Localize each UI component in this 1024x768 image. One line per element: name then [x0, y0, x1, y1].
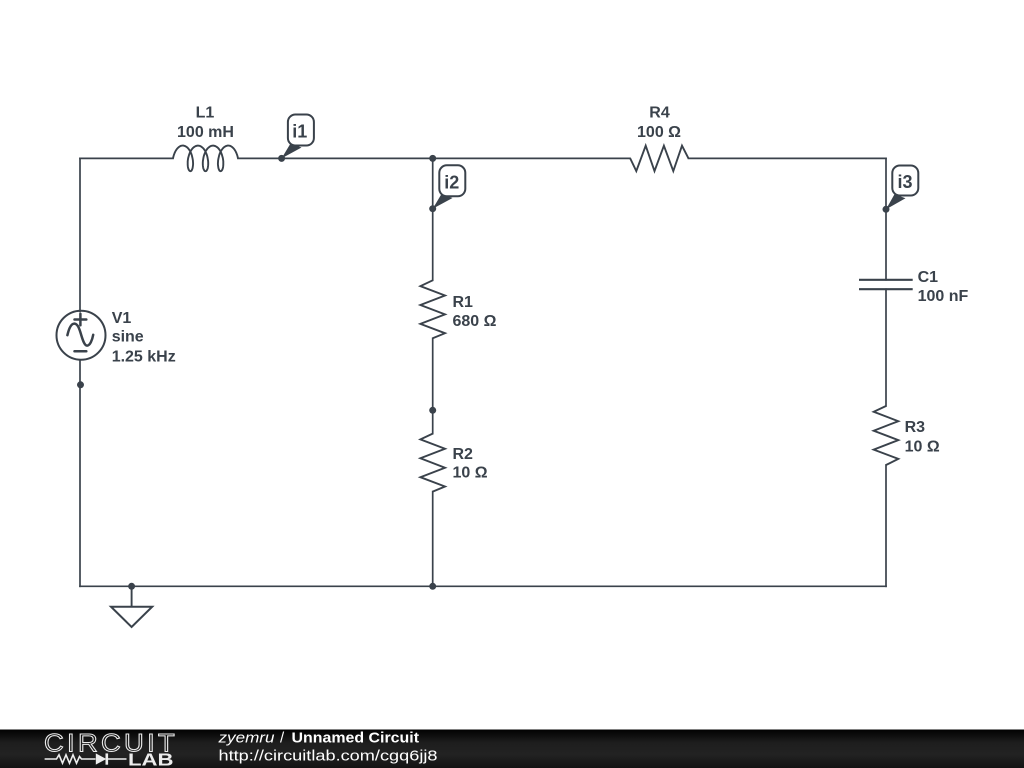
bottom bar — [0, 730, 1024, 768]
svg-text:C1: C1 — [918, 269, 939, 286]
junction dot i1 node — [278, 155, 285, 162]
node i1 flag — [282, 115, 314, 159]
resistor R1 — [420, 280, 445, 338]
svg-text:V1: V1 — [112, 310, 132, 327]
svg-text:R3: R3 — [905, 419, 926, 436]
voltage source V1 — [57, 311, 106, 360]
junction dot bottom of middle branch — [429, 583, 436, 590]
svg-text:i1: i1 — [292, 122, 307, 142]
resistor R3 — [874, 406, 899, 465]
svg-text:Unnamed Circuit: Unnamed Circuit — [292, 730, 420, 747]
wire right vertical lower — [885, 465, 887, 586]
svg-text:100 mH: 100 mH — [177, 124, 234, 141]
junction dot i2 node — [429, 205, 436, 212]
svg-text:1.25 kHz: 1.25 kHz — [112, 348, 176, 365]
wire right vertical between C1 and R3 — [885, 289, 887, 406]
svg-text:100 Ω: 100 Ω — [637, 124, 681, 141]
svg-text:R1: R1 — [453, 294, 474, 311]
junction dot top of middle branch — [429, 155, 436, 162]
svg-text:680 Ω: 680 Ω — [453, 313, 497, 330]
svg-text:R4: R4 — [649, 105, 670, 122]
wire top-middle horizontal — [238, 157, 630, 159]
wire middle vertical between R1 and R2 — [432, 338, 434, 433]
junction dot i3 node — [883, 206, 890, 213]
svg-text:i3: i3 — [897, 172, 912, 192]
CircuitLab logo resistor-diode line — [45, 753, 127, 764]
svg-text:10 Ω: 10 Ω — [453, 465, 488, 482]
wire bottom horizontal — [80, 585, 886, 587]
svg-text:100 nF: 100 nF — [918, 288, 969, 305]
ground symbol — [111, 586, 152, 627]
wire right vertical upper — [885, 158, 887, 279]
svg-text:LAB: LAB — [128, 750, 174, 768]
capacitor C1 — [859, 280, 913, 289]
wire left vertical lower — [79, 360, 81, 586]
junction dot at ground — [128, 583, 135, 590]
wire middle vertical upper — [432, 158, 434, 280]
svg-text:i2: i2 — [444, 173, 459, 193]
node i3 flag — [886, 166, 918, 210]
svg-text:zyemru: zyemru — [217, 730, 275, 747]
wire left vertical upper — [79, 158, 81, 311]
svg-text:sine: sine — [112, 329, 144, 346]
resistor R2 — [420, 434, 445, 492]
node i2 flag — [433, 165, 466, 208]
junction dot below V1 — [77, 381, 84, 388]
inductor L1 — [173, 146, 238, 172]
svg-text:R2: R2 — [453, 446, 474, 463]
resistor R4 — [630, 146, 688, 171]
svg-text:10 Ω: 10 Ω — [905, 439, 940, 456]
svg-text:http://circuitlab.com/cgq6jj8: http://circuitlab.com/cgq6jj8 — [219, 748, 438, 765]
wire top-right horizontal — [689, 157, 887, 159]
wire top-left horizontal — [80, 157, 173, 159]
junction dot between R1 and R2 — [429, 407, 436, 414]
svg-text:L1: L1 — [196, 105, 215, 122]
wire middle vertical lower — [432, 492, 434, 587]
